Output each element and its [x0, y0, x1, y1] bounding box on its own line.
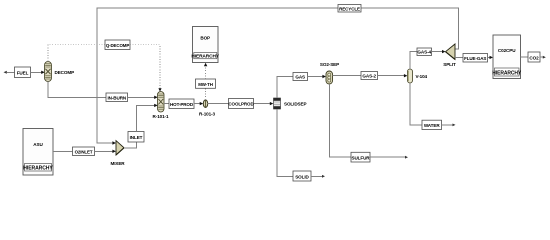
stream label SULFUR [351, 152, 370, 162]
svg-text:IN-BURN: IN-BURN [107, 95, 126, 100]
wire V-104 top to GAS-4 [410, 52, 417, 69]
wire O2INLET to MIXER [95, 150, 116, 153]
stream label O2INLET [73, 147, 95, 156]
wire COOLPROD to SOLIDSEP [254, 102, 274, 105]
svg-text:SO2-SEP: SO2-SEP [320, 62, 339, 67]
svg-text:SOLIDSEP: SOLIDSEP [284, 102, 306, 107]
svg-text:SOLID: SOLID [295, 174, 309, 179]
wire FLUE-GAS to CO2CPU [488, 56, 494, 59]
wire CO2CPU to CO2 [521, 56, 529, 58]
svg-text:R-101-3: R-101-3 [199, 112, 215, 117]
svg-text:HIERARCHY: HIERARCHY [23, 166, 53, 172]
heat stream Q-DECOMP dotted from DECOMP top [48, 45, 105, 62]
svg-text:R-101-1: R-101-1 [153, 114, 169, 119]
stream label RECYCLE [338, 5, 361, 13]
work stream MW-TH dotted from R-101-3 [205, 88, 207, 100]
stream label Q-DECOMP [105, 40, 130, 50]
stream label COOLPROD [228, 99, 254, 109]
svg-text:MW-TH: MW-TH [198, 82, 213, 87]
svg-text:WATER: WATER [424, 123, 441, 128]
reactor DECOMP [45, 62, 52, 82]
wire V-104 bottom to WATER [410, 83, 422, 125]
wire SOLID product end [311, 175, 325, 178]
svg-text:SULFUR: SULFUR [351, 155, 370, 160]
wire FUEL to DECOMP [31, 71, 45, 74]
reactor R-101-1 [158, 92, 165, 113]
wire SO2-SEP to GAS-2 [333, 75, 362, 77]
svg-text:RECYCLE: RECYCLE [339, 6, 360, 11]
heat stream Q-DECOMP dotted into R-101-1 [130, 45, 160, 89]
stream label FLUE-GAS [463, 54, 488, 63]
svg-text:CO2: CO2 [529, 55, 539, 60]
separator SOLIDSEP [274, 98, 281, 109]
svg-text:HOT-PROD: HOT-PROD [170, 102, 194, 107]
svg-text:SPLIT: SPLIT [443, 62, 456, 67]
hierarchy BOP [191, 27, 220, 63]
svg-text:GAS-2: GAS-2 [362, 74, 376, 79]
stream label INLET [128, 132, 144, 143]
svg-text:ASU: ASU [33, 142, 43, 147]
stream label GAS [293, 73, 308, 81]
svg-text:HIERARCHY: HIERARCHY [492, 71, 522, 77]
flash drum V-104 [408, 69, 413, 83]
wire HOT-PROD to R-101-3 [194, 102, 203, 105]
stream label CO2 [528, 52, 540, 62]
svg-text:COOLPROD: COOLPROD [228, 102, 254, 107]
stream label WATER [422, 120, 442, 129]
wire MIXER to INLET [124, 142, 136, 148]
stream label MW-TH [196, 79, 216, 88]
svg-text:GAS: GAS [295, 75, 305, 80]
splitter SPLIT [446, 44, 456, 59]
stream label GAS-2 [361, 72, 378, 80]
svg-text:V-104: V-104 [416, 74, 428, 79]
wire GAS-2 to V-104 [378, 74, 408, 77]
svg-text:HIERARCHY: HIERARCHY [191, 54, 220, 60]
wire INLET to R-101-1 [136, 105, 155, 131]
stream label GAS-4 [417, 48, 432, 56]
svg-text:INLET: INLET [130, 135, 143, 140]
stream label SOLID [293, 171, 311, 181]
stream label HOT-PROD [169, 99, 194, 109]
work stream MW-TH dotted into BOP [205, 66, 207, 79]
wire FUEL feed start arrow [4, 71, 15, 74]
svg-text:BOP: BOP [200, 36, 210, 41]
svg-text:C02CPU: C02CPU [498, 48, 516, 53]
separator SO2-SEP [326, 71, 333, 84]
wire SOLIDSEP bottom to SOLID [277, 109, 293, 176]
wire ASU to O2INLET [53, 150, 73, 152]
wire IN-BURN to R-101-1 [128, 96, 158, 99]
wire R-101-3 to COOLPROD [208, 103, 229, 105]
wire DECOMP bottom to IN-BURN [48, 82, 106, 98]
wire SPLIT to FLUE-GAS [455, 56, 463, 58]
hierarchy CO2CPU [492, 35, 522, 79]
wire SO2-SEP bottom to SULFUR [329, 84, 351, 157]
heater R-101-3 [203, 100, 207, 108]
svg-text:GAS-4: GAS-4 [417, 50, 431, 55]
stream label FUEL [15, 67, 31, 78]
svg-text:MIXER: MIXER [110, 161, 125, 166]
svg-text:FUEL: FUEL [17, 70, 29, 75]
wire SULFUR product end [370, 156, 408, 159]
wire SOLIDSEP top to GAS [277, 77, 293, 99]
hierarchy ASU [23, 129, 53, 176]
wire WATER product end [442, 124, 456, 127]
mixer MIXER [116, 141, 124, 155]
svg-text:O2INLET: O2INLET [75, 149, 93, 154]
svg-text:FLUE-GAS: FLUE-GAS [464, 56, 486, 61]
wire RECYCLE from SPLIT around top to MIXER [97, 8, 459, 143]
svg-text:Q-DECOMP: Q-DECOMP [106, 43, 130, 48]
wire GAS to SO2-SEP [308, 75, 326, 78]
wire R-101-1 to HOT-PROD [164, 103, 169, 105]
stream label IN-BURN [106, 93, 128, 102]
svg-text:DECOMP: DECOMP [55, 70, 75, 75]
wire CO2 product end [540, 56, 546, 59]
wire GAS-4 to SPLIT [432, 50, 446, 53]
